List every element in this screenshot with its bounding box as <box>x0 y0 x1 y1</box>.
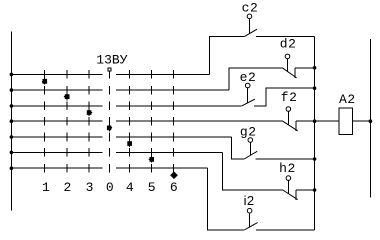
wire row6 step down to h2 <box>222 152 282 190</box>
switch f2 contact tick <box>295 121 297 131</box>
svg-text:A2: A2 <box>339 92 356 107</box>
switch h2 blade <box>283 190 298 200</box>
relay coil A2 box <box>339 108 352 134</box>
svg-text:h2: h2 <box>279 161 296 176</box>
row 6 wire <box>11 151 222 153</box>
column 1 dashed <box>44 70 46 172</box>
row 7 wire <box>11 167 207 169</box>
svg-text:6: 6 <box>170 180 178 195</box>
switch c2 actuator <box>249 19 251 34</box>
svg-text:5: 5 <box>148 180 156 195</box>
svg-text:4: 4 <box>126 180 134 195</box>
column 6 dashed <box>173 70 175 178</box>
junction dot row7-bus <box>10 166 14 170</box>
switch e2 blade <box>242 99 255 106</box>
wire row7 step down to i2 <box>208 168 245 230</box>
column 0 dashed <box>109 71 111 173</box>
matrix dot column1 row1 <box>42 79 47 84</box>
junction dot row2-bus <box>10 88 14 92</box>
wire d2 output <box>295 67 315 69</box>
junction dot row3-bus <box>10 104 14 108</box>
svg-text:2: 2 <box>64 180 72 195</box>
column 3 dashed <box>88 70 90 172</box>
junction dot row5-bus <box>10 135 14 139</box>
switch d2 actuator <box>287 59 289 72</box>
matrix dot column2 row2 <box>64 94 70 99</box>
switch e2 head circle <box>245 83 250 88</box>
junction dot f2-bus <box>313 119 317 123</box>
svg-text:13ВУ: 13ВУ <box>96 52 127 67</box>
junction dot d2-bus <box>313 66 317 70</box>
junction dot h2-bus <box>313 188 317 192</box>
wire e2 output step up <box>254 88 314 106</box>
wire h2 output <box>296 189 315 191</box>
switch c2 head circle <box>247 14 252 19</box>
wire A2 row <box>315 120 371 122</box>
matrix dot column6 row7 <box>170 171 178 179</box>
wire i2 output <box>256 229 314 231</box>
row 2 wire <box>11 89 228 91</box>
row 5 wire <box>11 136 231 138</box>
matrix dot column5 row6 <box>149 157 154 162</box>
switch h2 actuator <box>287 180 289 193</box>
svg-text:c2: c2 <box>242 0 259 15</box>
wire g2 output <box>256 158 315 160</box>
column 5 dashed <box>150 70 152 172</box>
svg-text:d2: d2 <box>280 36 297 51</box>
wire f2 output <box>296 120 315 122</box>
junction dot row6-bus <box>10 151 14 155</box>
switch g2 actuator <box>249 142 251 155</box>
wire row2 step up to d2 <box>229 68 282 90</box>
switch d2 head circle <box>285 54 290 59</box>
svg-text:i2: i2 <box>244 193 255 208</box>
switch g2 head circle <box>248 138 253 143</box>
switch i2 head circle <box>247 208 252 213</box>
svg-text:1: 1 <box>42 180 50 195</box>
junction dot A2-right bus <box>369 119 373 123</box>
right bus <box>369 39 371 198</box>
wire row5 step down to g2 <box>231 137 244 159</box>
switch c2 blade <box>245 29 257 36</box>
switch i2 blade <box>244 223 258 231</box>
switch d2 blade <box>282 68 296 78</box>
junction dot g2-bus <box>313 157 317 161</box>
wire row1 step up to c2 <box>209 36 244 74</box>
svg-text:f2: f2 <box>281 90 298 105</box>
switch g2 blade <box>244 151 257 159</box>
wire c2 output <box>256 35 315 37</box>
junction dot row4-bus <box>10 119 14 123</box>
junction dot row1-bus <box>10 73 14 77</box>
switch h2 head circle <box>286 176 291 181</box>
svg-text:e2: e2 <box>240 70 257 85</box>
svg-text:0: 0 <box>106 180 114 195</box>
row 1 wire <box>11 73 209 75</box>
row 3 wire <box>11 105 241 107</box>
column 4 dashed <box>129 70 131 172</box>
switch d2 contact tick <box>294 68 296 78</box>
switch i2 actuator <box>249 213 251 227</box>
svg-text:g2: g2 <box>240 124 257 139</box>
matrix dot column4 row5 <box>127 141 132 146</box>
matrix dot column3 row3 <box>87 110 92 115</box>
switch f2 blade <box>283 121 298 131</box>
switch e2 actuator <box>247 88 249 103</box>
switch h2 contact tick <box>295 190 297 200</box>
column 2 dashed <box>66 70 68 172</box>
matrix dot column0 row4 <box>107 126 112 131</box>
junction dot e2-bus <box>313 86 317 90</box>
terminal 13VU square <box>108 68 111 71</box>
switch f2 actuator <box>287 111 289 125</box>
switch f2 head circle <box>286 107 291 112</box>
svg-text:3: 3 <box>86 180 94 195</box>
left bus <box>10 32 12 211</box>
row 4 wire <box>11 120 282 122</box>
collector bus <box>314 36 316 230</box>
